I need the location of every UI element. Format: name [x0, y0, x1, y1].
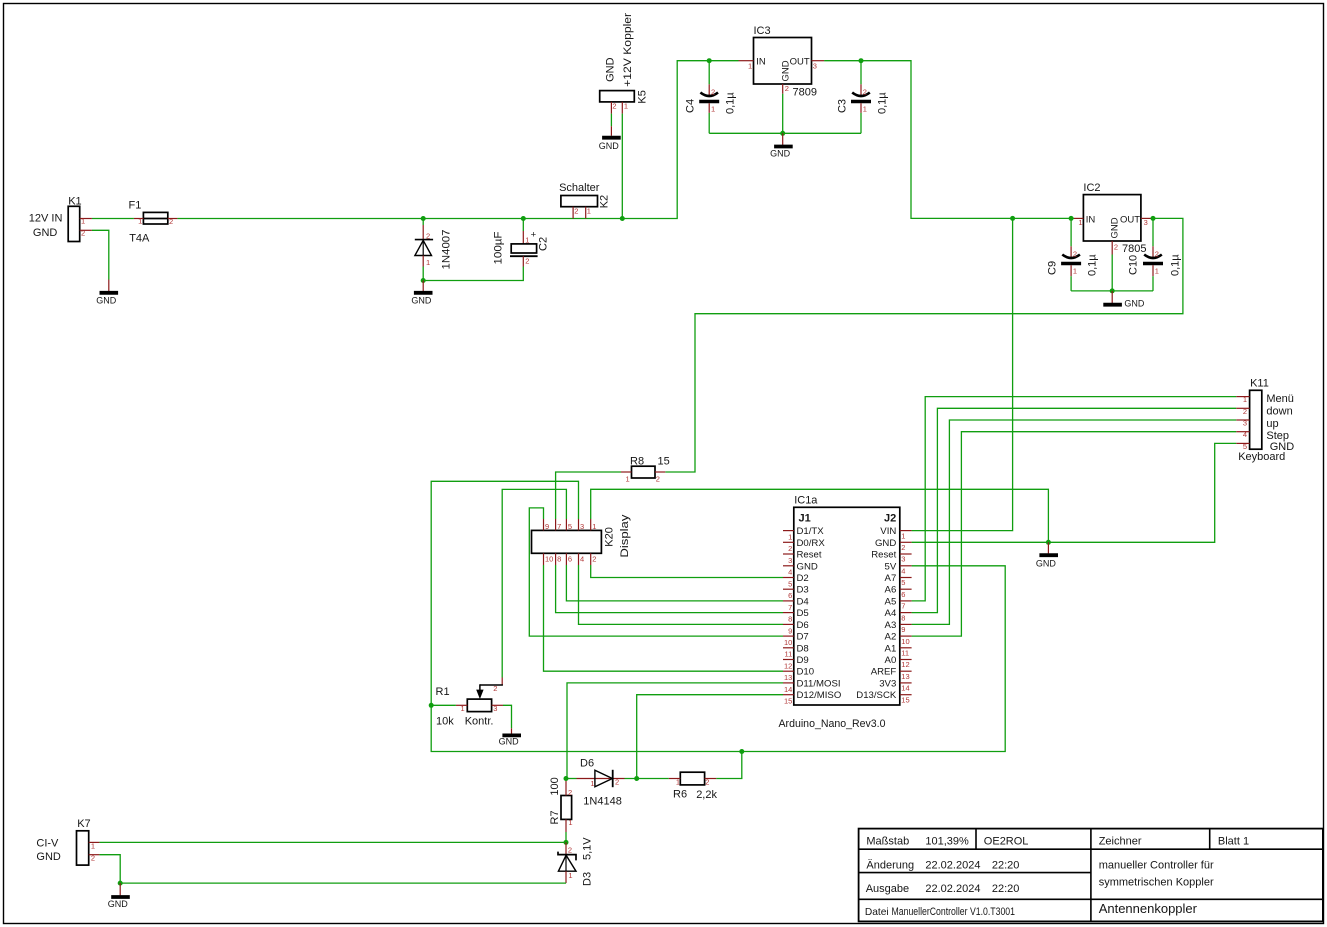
- svg-text:1: 1: [587, 206, 591, 215]
- svg-text:T4A: T4A: [129, 232, 150, 244]
- svg-text:100: 100: [549, 777, 561, 795]
- svg-text:IC3: IC3: [754, 25, 771, 37]
- node IC3 ground junction: [780, 131, 785, 136]
- svg-text:3: 3: [493, 704, 497, 713]
- svg-text:IN: IN: [756, 57, 766, 68]
- svg-text:0,1µ: 0,1µ: [725, 92, 737, 114]
- svg-text:1: 1: [1243, 395, 1247, 404]
- svg-text:2,2k: 2,2k: [696, 789, 717, 801]
- svg-text:D4: D4: [797, 596, 810, 607]
- node D6 anode junction: [564, 776, 569, 781]
- svg-text:D12/MISO: D12/MISO: [797, 690, 842, 701]
- svg-text:Reset: Reset: [797, 550, 822, 561]
- node 12V-diode junction: [421, 216, 426, 221]
- svg-text:3: 3: [1144, 218, 1148, 227]
- svg-text:IC1a: IC1a: [794, 495, 818, 507]
- svg-text:1: 1: [788, 533, 792, 542]
- microcontroller IC1a Arduino Nano: [779, 495, 900, 730]
- svg-text:14: 14: [901, 684, 909, 693]
- wire keyboard up to A3: [912, 420, 1237, 624]
- wire R7 to D3 junction: [565, 779, 567, 843]
- svg-text:GND: GND: [599, 141, 620, 151]
- svg-text:1: 1: [1078, 218, 1082, 227]
- svg-text:1: 1: [901, 531, 905, 540]
- header J1 pins: [783, 526, 841, 706]
- svg-text:GND: GND: [108, 899, 129, 909]
- svg-text:13: 13: [901, 672, 909, 681]
- svg-text:GND: GND: [1036, 558, 1057, 568]
- svg-text:Keyboard: Keyboard: [1238, 451, 1285, 463]
- title block row 2: [866, 859, 1019, 871]
- svg-text:GND: GND: [605, 57, 617, 82]
- svg-text:3: 3: [788, 556, 792, 565]
- svg-text:10: 10: [545, 555, 553, 564]
- node K5 junction: [620, 216, 625, 221]
- svg-text:AREF: AREF: [871, 667, 897, 678]
- svg-text:D6: D6: [580, 758, 594, 770]
- wire K20 pin4 to D6: [579, 565, 784, 624]
- svg-text:7: 7: [788, 603, 792, 612]
- wire IC3 ground bus: [709, 94, 861, 134]
- diode D6 1N4148: [577, 758, 625, 808]
- node ground junction: [1046, 540, 1051, 545]
- svg-text:GND: GND: [1110, 217, 1121, 238]
- svg-text:+12V Koppler: +12V Koppler: [622, 13, 634, 87]
- ground under IC3: [770, 133, 793, 158]
- wire diode D6 anode net: [566, 778, 577, 780]
- svg-text:3: 3: [580, 522, 584, 531]
- svg-text:2: 2: [785, 84, 789, 93]
- svg-text:Zeichner: Zeichner: [1099, 835, 1142, 847]
- svg-text:2: 2: [493, 684, 497, 693]
- svg-text:2: 2: [615, 777, 619, 786]
- wire K7 pin1 to D3: [99, 841, 566, 843]
- svg-text:2: 2: [568, 846, 572, 855]
- connector K1: [29, 196, 92, 242]
- title block row 4: [865, 906, 1015, 918]
- svg-text:GND: GND: [797, 561, 818, 572]
- node C2 top junction: [521, 216, 526, 221]
- svg-text:R1: R1: [436, 686, 450, 698]
- connector K7 CI-V: [36, 818, 99, 865]
- node R1 5V junction: [429, 703, 434, 708]
- header J2 pins: [856, 526, 911, 704]
- wire K1 pin2 to ground: [92, 230, 109, 279]
- resistor R7 100: [549, 777, 573, 832]
- svg-text:4: 4: [580, 555, 584, 564]
- svg-text:Menü: Menü: [1266, 393, 1294, 405]
- svg-text:C3: C3: [836, 99, 848, 113]
- wire R8 pin1 to K20 pin7: [556, 472, 621, 519]
- svg-text:15: 15: [784, 697, 792, 706]
- resistor R8 15: [621, 456, 670, 484]
- svg-text:1: 1: [711, 105, 715, 114]
- svg-text:IC2: IC2: [1083, 182, 1100, 194]
- svg-text:2: 2: [1073, 250, 1077, 259]
- voltage regulator IC3 7809: [739, 25, 825, 98]
- wire K5 pin2 to ground: [610, 114, 612, 127]
- voltage regulator IC2 7805: [1074, 182, 1152, 255]
- node D6 cathode junction: [634, 776, 639, 781]
- wire 5V net: [431, 481, 1005, 751]
- svg-text:1: 1: [426, 258, 430, 267]
- svg-text:A6: A6: [885, 585, 897, 596]
- wire IC2 OUT 5V to R8: [665, 218, 1183, 472]
- svg-text:0,1µ: 0,1µ: [1170, 254, 1182, 276]
- wire ground bus Arduino GND to keyboard: [912, 443, 1237, 542]
- svg-text:C2: C2: [538, 237, 550, 251]
- svg-text:3: 3: [901, 555, 905, 564]
- svg-text:OUT: OUT: [1120, 214, 1140, 225]
- svg-text:22:20: 22:20: [992, 859, 1020, 871]
- svg-text:2: 2: [612, 102, 616, 111]
- svg-text:D5: D5: [797, 608, 809, 619]
- switch K2 Schalter: [559, 182, 610, 219]
- ground under K1: [96, 280, 118, 306]
- node C10 junction: [1151, 216, 1156, 221]
- connector K5: [600, 13, 649, 114]
- wire R1 pin3 to ground: [503, 705, 512, 728]
- fuse F1: [129, 199, 178, 244]
- svg-text:1: 1: [568, 818, 572, 827]
- svg-text:11: 11: [901, 649, 909, 658]
- svg-text:Änderung: Änderung: [866, 859, 914, 871]
- wire 9V net IC3 OUT to IC2 IN: [824, 61, 1074, 219]
- svg-text:2: 2: [525, 257, 529, 266]
- svg-text:8: 8: [901, 613, 905, 622]
- capacitor C2 100uF: [493, 219, 550, 267]
- svg-text:2: 2: [568, 788, 572, 797]
- connector K11 Keyboard: [1236, 378, 1294, 464]
- svg-text:12: 12: [901, 660, 909, 669]
- svg-text:Step: Step: [1266, 430, 1289, 442]
- svg-text:1: 1: [748, 61, 752, 70]
- svg-text:2: 2: [1114, 242, 1118, 251]
- svg-text:C10: C10: [1128, 255, 1140, 275]
- svg-text:K1: K1: [68, 196, 81, 208]
- svg-text:0,1µ: 0,1µ: [876, 92, 888, 114]
- svg-text:9: 9: [901, 625, 905, 634]
- svg-text:15: 15: [901, 695, 909, 704]
- svg-text:Kontr.: Kontr.: [465, 715, 494, 727]
- title block frame: [859, 829, 1323, 922]
- svg-text:down: down: [1266, 406, 1292, 418]
- svg-text:K20: K20: [603, 527, 615, 547]
- svg-text:1: 1: [568, 871, 572, 880]
- node diode-ground junction: [421, 278, 426, 283]
- wire K5 pin1 down to 12V rail: [621, 114, 623, 219]
- svg-text:2: 2: [426, 232, 430, 241]
- svg-text:GND: GND: [411, 296, 432, 306]
- node IC2 ground junction: [1110, 288, 1115, 293]
- svg-text:Arduino_Nano_Rev3.0: Arduino_Nano_Rev3.0: [779, 718, 886, 730]
- svg-text:10: 10: [901, 637, 909, 646]
- capacitor C4: [685, 61, 737, 134]
- wire K20 pin10 to D10: [544, 565, 784, 671]
- svg-text:1: 1: [461, 704, 465, 713]
- svg-text:1: 1: [91, 842, 95, 851]
- svg-text:symmetrischen Koppler: symmetrischen Koppler: [1099, 877, 1214, 889]
- svg-text:15: 15: [658, 456, 670, 468]
- node K7 ground junction: [118, 881, 123, 886]
- svg-text:4: 4: [901, 567, 905, 576]
- svg-text:10k: 10k: [436, 715, 454, 727]
- ground under 1N4007: [411, 281, 432, 306]
- svg-text:D0/RX: D0/RX: [797, 538, 826, 549]
- svg-text:Ausgabe: Ausgabe: [866, 883, 909, 895]
- svg-text:R8: R8: [630, 456, 644, 468]
- svg-text:Maßstab: Maßstab: [866, 835, 909, 847]
- svg-text:OUT: OUT: [790, 57, 810, 68]
- svg-text:8: 8: [788, 615, 792, 624]
- potentiometer R1 10k Kontr.: [436, 678, 504, 728]
- svg-text:D8: D8: [797, 643, 809, 654]
- node C4 top junction: [707, 58, 712, 63]
- svg-text:up: up: [1266, 418, 1278, 430]
- svg-text:22.02.2024: 22.02.2024: [925, 859, 980, 871]
- svg-text:Schalter: Schalter: [559, 182, 600, 194]
- svg-text:A3: A3: [885, 620, 897, 631]
- wire K20 pin9 bypass to D7: [529, 508, 783, 636]
- svg-text:1: 1: [626, 475, 630, 484]
- svg-text:1: 1: [81, 217, 85, 226]
- svg-text:A1: A1: [885, 643, 897, 654]
- wire K7 pin2 ground run to D3: [99, 855, 566, 883]
- svg-text:D13/SCK: D13/SCK: [856, 690, 897, 701]
- svg-text:3: 3: [813, 61, 817, 70]
- svg-text:Display: Display: [619, 514, 631, 558]
- ground under IC2: [1103, 291, 1145, 309]
- svg-text:R6: R6: [673, 788, 687, 800]
- svg-text:1: 1: [624, 102, 628, 111]
- svg-text:K2: K2: [599, 195, 611, 208]
- svg-text:R7: R7: [549, 810, 561, 824]
- svg-text:1: 1: [525, 236, 529, 245]
- node C9 junction: [1069, 216, 1074, 221]
- wire 12V input net: [92, 61, 739, 219]
- svg-text:100µF: 100µF: [493, 231, 505, 264]
- svg-text:1: 1: [590, 779, 594, 788]
- diode 1N4007: [415, 225, 453, 270]
- svg-text:Reset: Reset: [871, 550, 896, 561]
- wire K20 pin6 to D4: [566, 565, 783, 601]
- svg-text:1: 1: [676, 777, 680, 786]
- svg-text:OE2ROL: OE2ROL: [984, 835, 1029, 847]
- svg-text:1: 1: [1155, 267, 1159, 276]
- svg-text:11: 11: [785, 650, 793, 659]
- svg-text:C4: C4: [685, 99, 697, 113]
- wire keyboard Menü to A5: [912, 397, 1237, 601]
- svg-text:2: 2: [705, 777, 709, 786]
- wire 9V rail to Arduino VIN: [912, 218, 1013, 530]
- svg-text:1N4148: 1N4148: [583, 796, 622, 808]
- svg-text:4: 4: [788, 568, 792, 577]
- svg-text:1: 1: [138, 217, 142, 226]
- svg-text:GND: GND: [780, 60, 791, 81]
- svg-text:2: 2: [592, 555, 596, 564]
- title block row 3: [866, 883, 1020, 895]
- wire K20 pin5 to R1 wiper: [502, 489, 566, 677]
- svg-text:1N4007: 1N4007: [441, 230, 453, 270]
- svg-text:2: 2: [81, 228, 85, 237]
- svg-text:GND: GND: [33, 227, 58, 239]
- svg-text:Antennenkoppler: Antennenkoppler: [1099, 901, 1198, 916]
- ground under R1: [499, 728, 521, 746]
- svg-text:D6: D6: [797, 620, 809, 631]
- svg-text:14: 14: [784, 685, 792, 694]
- svg-text:F1: F1: [129, 199, 142, 211]
- node R7 D3 K7 junction: [564, 840, 569, 845]
- svg-text:2: 2: [574, 206, 578, 215]
- svg-text:8: 8: [557, 555, 561, 564]
- capacitor C10: [1128, 218, 1182, 291]
- svg-text:GND: GND: [1124, 299, 1145, 309]
- ground under K7: [108, 883, 130, 909]
- svg-text:Blatt 1: Blatt 1: [1218, 835, 1249, 847]
- node R6 5V junction: [739, 749, 744, 754]
- svg-text:GND: GND: [96, 295, 117, 305]
- svg-text:4: 4: [1243, 430, 1247, 439]
- svg-text:2: 2: [711, 88, 715, 97]
- svg-text:D11/MOSI: D11/MOSI: [797, 678, 841, 689]
- svg-text:A7: A7: [885, 573, 897, 584]
- svg-text:2: 2: [91, 854, 95, 863]
- title block row 1: [866, 835, 1249, 847]
- svg-text:13: 13: [784, 673, 792, 682]
- wire diode to 12V rail and ground rail: [423, 219, 523, 281]
- wire R6 pin2 riser to 5V rail: [716, 752, 742, 779]
- connector K20 Display: [532, 514, 632, 565]
- svg-text:D3: D3: [582, 872, 594, 886]
- wire ground net K20 pin1 to GND junction: [591, 489, 1049, 542]
- svg-text:101,39%: 101,39%: [925, 835, 969, 847]
- svg-text:5: 5: [901, 578, 905, 587]
- svg-text:A2: A2: [885, 632, 897, 643]
- svg-text:12: 12: [784, 661, 792, 670]
- svg-text:6: 6: [568, 555, 572, 564]
- svg-text:K5: K5: [637, 90, 649, 103]
- svg-text:2: 2: [1155, 250, 1159, 259]
- svg-text:0,1µ: 0,1µ: [1087, 254, 1099, 276]
- svg-text:5: 5: [788, 579, 792, 588]
- svg-text:CI-V: CI-V: [36, 837, 59, 849]
- svg-text:2: 2: [863, 88, 867, 97]
- svg-text:D1/TX: D1/TX: [797, 526, 825, 537]
- svg-text:1: 1: [863, 105, 867, 114]
- svg-text:1: 1: [1073, 267, 1077, 276]
- svg-text:A5: A5: [885, 596, 897, 607]
- node 9V rail junction: [1010, 216, 1015, 221]
- svg-text:3: 3: [1243, 419, 1247, 428]
- svg-text:2: 2: [169, 217, 173, 226]
- wire K20 pin2 to D2: [591, 565, 783, 578]
- svg-text:C9: C9: [1047, 261, 1059, 275]
- wire keyboard down to A4: [912, 408, 1237, 612]
- svg-text:22.02.2024: 22.02.2024: [925, 883, 980, 895]
- svg-text:GND: GND: [875, 538, 896, 549]
- svg-text:D7: D7: [797, 632, 809, 643]
- svg-text:7: 7: [557, 522, 561, 531]
- svg-text:2: 2: [788, 544, 792, 553]
- svg-text:9: 9: [545, 522, 549, 531]
- wire D12/MISO to diode D6 cathode: [637, 695, 783, 779]
- svg-text:9: 9: [788, 626, 792, 635]
- wire keyboard Step to A2: [912, 432, 1237, 636]
- svg-text:GND: GND: [499, 737, 520, 747]
- svg-text:5V: 5V: [885, 561, 897, 572]
- zener diode D3 5,1V: [558, 837, 594, 886]
- capacitor C9: [1047, 218, 1099, 291]
- svg-text:D3: D3: [797, 585, 809, 596]
- wire IC2 ground bus: [1071, 255, 1153, 291]
- svg-text:D2: D2: [797, 573, 809, 584]
- svg-text:3V3: 3V3: [879, 678, 896, 689]
- svg-text:10: 10: [784, 638, 792, 647]
- node C3 top junction: [859, 58, 864, 63]
- svg-text:6: 6: [901, 590, 905, 599]
- svg-text:2: 2: [901, 543, 905, 552]
- svg-text:K7: K7: [77, 818, 90, 830]
- title block project name: [1099, 859, 1214, 916]
- svg-text:6: 6: [788, 591, 792, 600]
- svg-text:1: 1: [592, 522, 596, 531]
- svg-text:IN: IN: [1086, 214, 1096, 225]
- svg-text:J2: J2: [884, 513, 896, 525]
- svg-text:7805: 7805: [1122, 243, 1146, 255]
- wire K20 pin8 to D5: [556, 565, 783, 613]
- resistor R6 2,2k: [669, 772, 718, 801]
- wire R1 pin1 to 5V rail: [431, 704, 456, 706]
- svg-text:D9: D9: [797, 655, 809, 666]
- svg-text:12V IN: 12V IN: [29, 213, 63, 225]
- svg-text:D10: D10: [797, 667, 815, 678]
- svg-text:GND: GND: [770, 149, 791, 159]
- svg-text:manueller Controller für: manueller Controller für: [1099, 859, 1214, 871]
- ground at Arduino GND: [1036, 542, 1058, 568]
- svg-text:ManuellerController V1.0.T3001: ManuellerController V1.0.T3001: [892, 906, 1016, 918]
- svg-text:K11: K11: [1250, 378, 1269, 390]
- svg-text:A0: A0: [885, 655, 897, 666]
- svg-text:VIN: VIN: [880, 526, 896, 537]
- wire diode D6 cathode to R6: [625, 778, 669, 780]
- svg-text:22:20: 22:20: [992, 883, 1020, 895]
- svg-text:5,1V: 5,1V: [582, 837, 594, 860]
- svg-text:2: 2: [1243, 407, 1247, 416]
- svg-text:+: +: [531, 229, 537, 240]
- wire D11/MOSI to diode D6: [567, 683, 783, 779]
- ground under K5: [599, 126, 621, 151]
- capacitor C3: [836, 61, 888, 134]
- svg-text:5: 5: [568, 522, 572, 531]
- svg-text:2: 2: [656, 475, 660, 484]
- svg-text:J1: J1: [799, 513, 811, 525]
- svg-text:7809: 7809: [793, 87, 817, 99]
- svg-text:5: 5: [1243, 442, 1247, 451]
- svg-text:Datei: Datei: [865, 907, 889, 918]
- svg-text:GND: GND: [36, 851, 61, 863]
- svg-text:A4: A4: [885, 608, 897, 619]
- svg-text:7: 7: [901, 602, 905, 611]
